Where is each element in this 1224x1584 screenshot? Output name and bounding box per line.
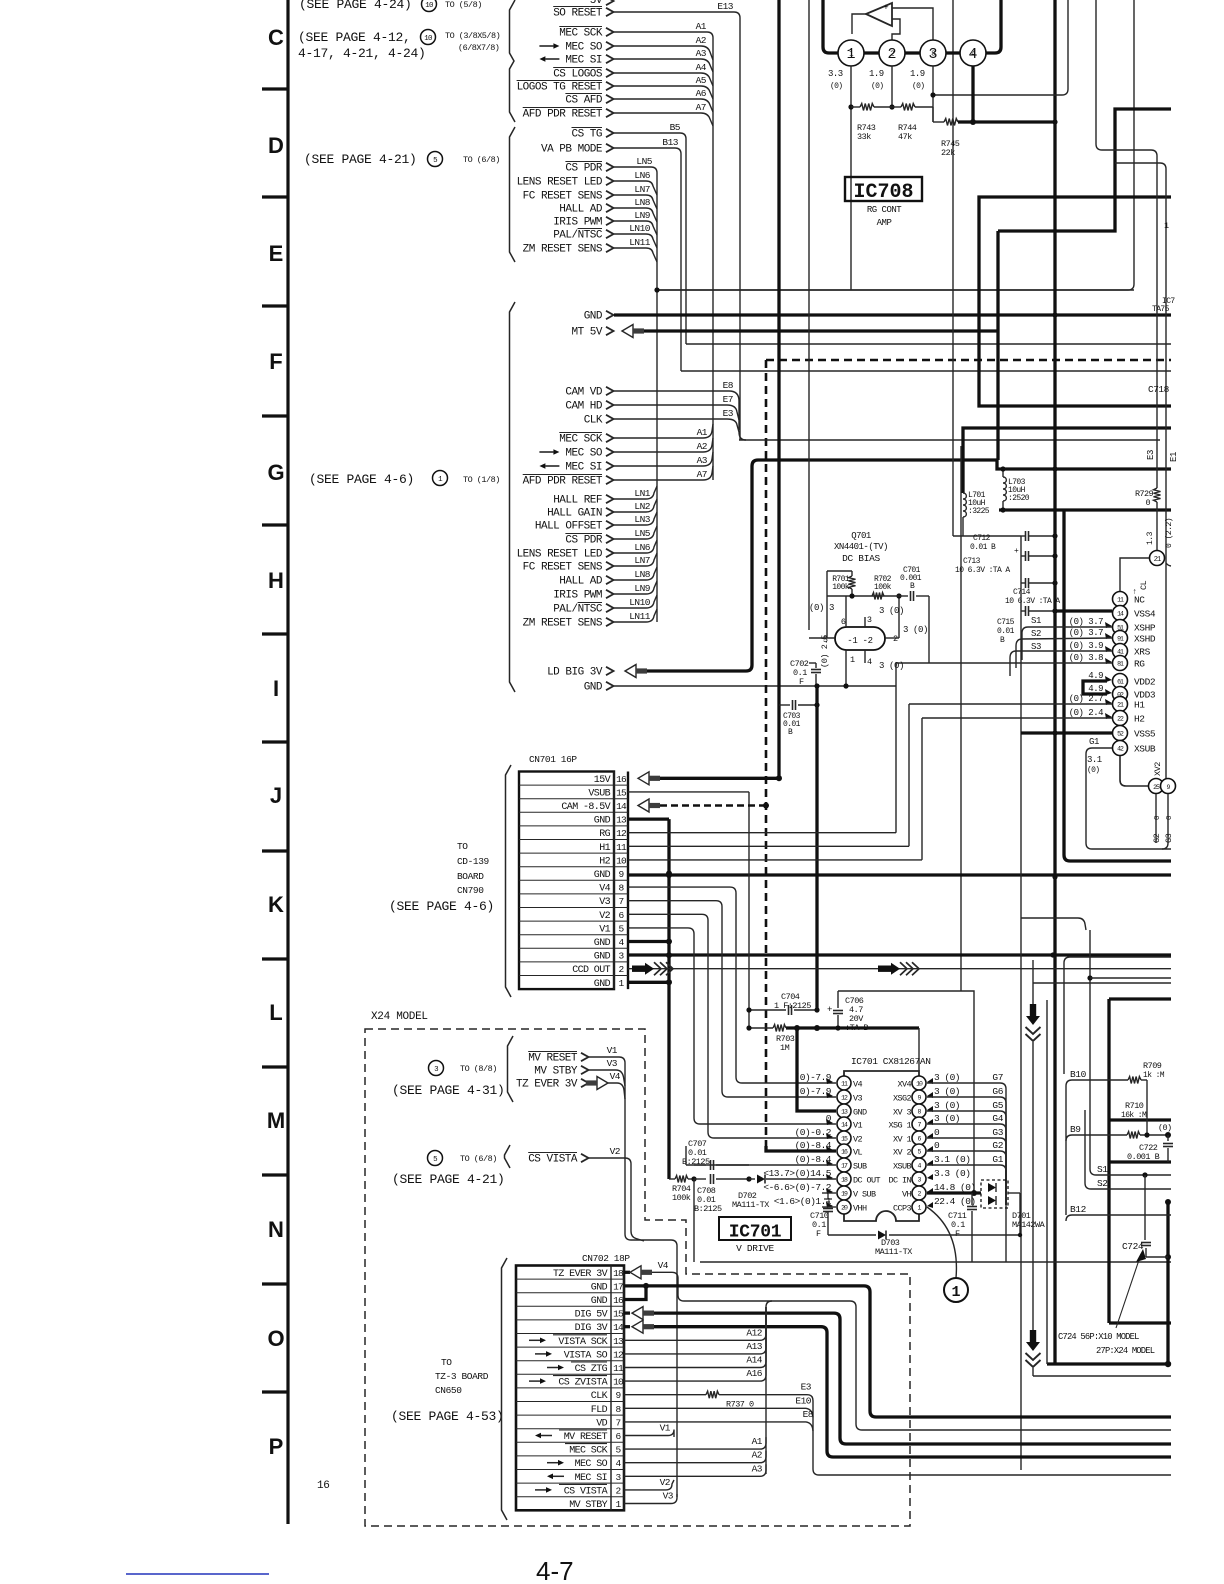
svg-text:18: 18 bbox=[613, 1268, 624, 1279]
svg-text:FC RESET SENS: FC RESET SENS bbox=[523, 191, 603, 203]
wire LN5 bbox=[614, 167, 657, 622]
wire LN10 g bbox=[614, 595, 657, 608]
svg-text:CS VISTA: CS VISTA bbox=[564, 1486, 608, 1497]
wire 919 down bbox=[918, 1028, 920, 1071]
CCD pin XSHP bbox=[1113, 620, 1128, 635]
CCD pin XSUB bbox=[1113, 741, 1128, 756]
wire LN9 bbox=[614, 221, 657, 235]
wire LN7 bbox=[614, 195, 657, 209]
svg-text::3225: :3225 bbox=[968, 507, 990, 516]
wire B13 bbox=[614, 148, 681, 371]
svg-text:RG: RG bbox=[599, 829, 610, 840]
CCD pin XRS bbox=[1113, 644, 1128, 659]
wire thin y164 E1 bbox=[1115, 163, 1166, 779]
svg-text:12: 12 bbox=[613, 1349, 624, 1360]
wire thin y983 bbox=[1033, 982, 1171, 984]
svg-text:E7: E7 bbox=[723, 394, 733, 405]
svg-text:E3: E3 bbox=[723, 408, 734, 419]
svg-text:TO: TO bbox=[441, 1357, 452, 1368]
svg-text:CLK: CLK bbox=[591, 1391, 608, 1402]
wire H2 bbox=[922, 717, 1112, 719]
svg-text:FLD: FLD bbox=[591, 1405, 608, 1416]
svg-text:FC RESET SENS: FC RESET SENS bbox=[523, 562, 603, 574]
svg-text:2: 2 bbox=[887, 46, 896, 63]
wire VHH C710 bbox=[822, 1206, 836, 1208]
svg-text:G3: G3 bbox=[992, 1127, 1003, 1138]
page ref M row X24 bbox=[429, 1061, 444, 1076]
svg-text:V4: V4 bbox=[658, 1260, 669, 1271]
svg-text:VDD2: VDD2 bbox=[1134, 677, 1156, 688]
svg-text:0: 0 bbox=[1145, 498, 1150, 508]
svg-text:(0): (0) bbox=[871, 82, 883, 91]
svg-text:GND: GND bbox=[594, 952, 611, 963]
wire Q701 pin6 up bbox=[845, 614, 847, 627]
wire LN11 g bbox=[614, 609, 657, 622]
svg-text:HALL AD: HALL AD bbox=[559, 576, 603, 588]
svg-text:6: 6 bbox=[841, 617, 846, 627]
svg-text:XV 2: XV 2 bbox=[893, 1148, 912, 1158]
CCD pin VSS4 bbox=[1113, 606, 1128, 621]
svg-text:TZ EVER 3V: TZ EVER 3V bbox=[516, 1079, 578, 1091]
svg-text:GND: GND bbox=[853, 1108, 867, 1118]
wire FLD pin8 E10 bbox=[624, 1408, 813, 1417]
svg-text:(SEE PAGE 4-21): (SEE PAGE 4-21) bbox=[392, 1172, 505, 1187]
wire heavy vertical 998 bbox=[996, 231, 999, 460]
IC701 pin 8 XV 3 bbox=[912, 1104, 926, 1118]
svg-text:G5: G5 bbox=[992, 1100, 1003, 1111]
junction circle 1 bbox=[944, 1278, 968, 1302]
svg-text:A1: A1 bbox=[752, 1436, 763, 1447]
svg-text:V2: V2 bbox=[610, 1146, 621, 1157]
svg-text:CN702 18P: CN702 18P bbox=[582, 1253, 630, 1264]
svg-text:(0): (0) bbox=[912, 82, 924, 91]
wire B5 rail bbox=[686, 343, 1171, 345]
svg-text:CS VISTA: CS VISTA bbox=[528, 1154, 578, 1166]
wire RG bbox=[896, 662, 1112, 664]
svg-text:MEC SI: MEC SI bbox=[565, 462, 602, 474]
svg-text:A3: A3 bbox=[697, 455, 708, 466]
wire pins 1-2 bbox=[864, 51, 879, 54]
wire G2 bbox=[927, 1151, 1006, 1205]
svg-text:V1: V1 bbox=[660, 1423, 671, 1434]
CCD pin NC bbox=[1113, 592, 1128, 607]
svg-text:XV 1: XV 1 bbox=[893, 1135, 912, 1145]
wire A1g bbox=[614, 424, 713, 438]
brace CN701 bbox=[506, 765, 512, 997]
svg-text:XSHD: XSHD bbox=[1134, 634, 1156, 645]
model box heavy outline bbox=[1107, 999, 1110, 1323]
svg-text:A1: A1 bbox=[696, 21, 707, 32]
svg-text:HALL OFFSET: HALL OFFSET bbox=[535, 521, 603, 533]
resistor R703 bbox=[749, 1027, 773, 1029]
svg-text:3 (0): 3 (0) bbox=[903, 625, 928, 635]
brace CN702 bbox=[502, 1258, 508, 1520]
svg-text:H2: H2 bbox=[599, 856, 610, 867]
svg-text:10: 10 bbox=[616, 855, 627, 866]
svg-text:TO (5/8): TO (5/8) bbox=[445, 0, 482, 10]
brace CS VISTA group bbox=[505, 1145, 511, 1168]
svg-text:PAL/NTSC: PAL/NTSC bbox=[553, 604, 603, 616]
wire pin3 down bbox=[932, 66, 934, 122]
wire S2 b bbox=[1085, 1110, 1171, 1189]
svg-text:<1.6>(0)1.1: <1.6>(0)1.1 bbox=[774, 1196, 832, 1207]
svg-text:(0)-7.9: (0)-7.9 bbox=[795, 1072, 832, 1083]
svg-text:(0) 2.5: (0) 2.5 bbox=[820, 635, 830, 668]
svg-text:47k: 47k bbox=[898, 132, 912, 142]
svg-text:LN5: LN5 bbox=[636, 156, 652, 167]
wire heavy feed from top to pin1 bbox=[823, 0, 838, 53]
svg-text:TZ-3 BOARD: TZ-3 BOARD bbox=[435, 1371, 489, 1382]
svg-text:C718: C718 bbox=[1148, 384, 1170, 395]
svg-text:3 (0): 3 (0) bbox=[934, 1072, 960, 1083]
svg-text:MEC SI: MEC SI bbox=[575, 1473, 607, 1484]
svg-text:E3: E3 bbox=[801, 1382, 812, 1393]
svg-text:(0)-8.4: (0)-8.4 bbox=[795, 1154, 832, 1165]
IC701 pin 1 CCP3 bbox=[912, 1200, 926, 1214]
svg-text:1: 1 bbox=[1164, 221, 1169, 231]
svg-text:F: F bbox=[816, 1229, 821, 1239]
svg-text:(SEE PAGE 4-53): (SEE PAGE 4-53) bbox=[391, 1409, 504, 1424]
svg-text:MA111-TX: MA111-TX bbox=[875, 1247, 912, 1257]
svg-text:C712: C712 bbox=[973, 534, 991, 543]
wire heavy right rail y460-469 jog bbox=[997, 460, 1171, 469]
wire V SUB gnd bbox=[822, 1192, 836, 1194]
svg-text:CS ZVISTA: CS ZVISTA bbox=[558, 1378, 607, 1389]
IC701 pin 5 XV 2 bbox=[912, 1144, 926, 1158]
wire B9 R710 bbox=[1066, 1135, 1127, 1141]
svg-text:A3: A3 bbox=[752, 1463, 763, 1474]
wire heavy y428 bbox=[963, 428, 1171, 493]
wire vertical 953 bbox=[952, 0, 954, 536]
capacitor C713 bbox=[1025, 551, 1027, 561]
svg-text:CL: CL bbox=[1139, 580, 1149, 590]
wire G3 bbox=[927, 1138, 1006, 1205]
zone border rail bbox=[286, 0, 289, 1524]
svg-text:21: 21 bbox=[1154, 556, 1161, 564]
svg-text:CLK: CLK bbox=[584, 415, 603, 427]
IC701 pin 16 VL bbox=[837, 1144, 851, 1158]
wire LN6 g bbox=[614, 540, 657, 553]
svg-text:(0) 3: (0) 3 bbox=[809, 603, 834, 613]
svg-text:G1: G1 bbox=[1089, 737, 1099, 747]
svg-text:1: 1 bbox=[846, 46, 855, 63]
svg-text:(0) 2.4: (0) 2.4 bbox=[1069, 708, 1103, 718]
svg-text:MEC SCK: MEC SCK bbox=[569, 1446, 607, 1457]
wire node R701 bottom bbox=[827, 595, 899, 597]
wire E8 bbox=[614, 391, 739, 430]
wire LN rail to top bbox=[657, 289, 1134, 291]
svg-text:10: 10 bbox=[424, 35, 433, 43]
wire G5 bbox=[927, 1111, 1006, 1205]
svg-text:IRIS PWM: IRIS PWM bbox=[553, 217, 602, 229]
svg-text:CN790: CN790 bbox=[457, 885, 484, 896]
svg-text:(0) 3.9: (0) 3.9 bbox=[1069, 641, 1103, 651]
svg-text:100k: 100k bbox=[832, 583, 850, 592]
svg-text:(6/8X7/8): (6/8X7/8) bbox=[458, 43, 499, 53]
wire GND pin17 heavy bbox=[624, 1284, 646, 1287]
wire DC OUT pin18 network bbox=[669, 1178, 675, 1180]
wire A1 bbox=[614, 32, 713, 480]
svg-text:+: + bbox=[883, 3, 888, 13]
resistor R701 bbox=[851, 571, 853, 576]
svg-text:VISTA SO: VISTA SO bbox=[564, 1350, 608, 1361]
svg-text:IC701 CX81267AN: IC701 CX81267AN bbox=[851, 1056, 931, 1067]
svg-text:CS LOGOS: CS LOGOS bbox=[553, 69, 603, 81]
svg-text:IRIS PWM: IRIS PWM bbox=[553, 590, 602, 602]
resistor R704 bbox=[675, 1176, 688, 1183]
svg-text:+: + bbox=[1014, 547, 1019, 556]
wire thin h918 bbox=[1021, 918, 1086, 930]
svg-text:3: 3 bbox=[867, 615, 872, 625]
wire G3 bbox=[1162, 794, 1168, 849]
svg-text:<-6.6>(0)-7.2: <-6.6>(0)-7.2 bbox=[763, 1182, 831, 1193]
wire G2 bbox=[1155, 794, 1157, 843]
svg-text:LN6: LN6 bbox=[634, 542, 650, 553]
svg-text:A4: A4 bbox=[696, 62, 707, 73]
svg-text:(SEE PAGE 4-6): (SEE PAGE 4-6) bbox=[309, 472, 414, 487]
svg-text:LN8: LN8 bbox=[634, 569, 650, 580]
svg-text:S3: S3 bbox=[1031, 642, 1041, 652]
svg-text:GND: GND bbox=[584, 311, 603, 323]
svg-text:0.001 B: 0.001 B bbox=[1127, 1152, 1160, 1162]
svg-text:BOARD: BOARD bbox=[457, 871, 484, 882]
svg-text:F: F bbox=[269, 349, 282, 374]
wire pin1 down bbox=[850, 66, 852, 290]
wire vertical 1090 bbox=[1089, 930, 1091, 1120]
svg-text:GND: GND bbox=[594, 979, 611, 990]
wire CAM -8.5V dashed rail bbox=[766, 359, 1171, 362]
svg-text:MV STBY: MV STBY bbox=[534, 1066, 578, 1078]
svg-text:1M: 1M bbox=[780, 1043, 790, 1053]
svg-text:AFD PDR RESET: AFD PDR RESET bbox=[523, 109, 603, 121]
wire GND pin13 bbox=[628, 817, 669, 820]
svg-text:XV2: XV2 bbox=[1153, 762, 1163, 776]
svg-text:XRS: XRS bbox=[1134, 647, 1151, 658]
wire RG pin12 bbox=[628, 832, 896, 834]
svg-text:LN9: LN9 bbox=[634, 210, 650, 221]
capacitor C724 bbox=[1144, 1175, 1146, 1240]
wire G6 bbox=[927, 1097, 1006, 1205]
svg-text:16: 16 bbox=[616, 774, 627, 785]
svg-text:S1: S1 bbox=[1031, 616, 1041, 626]
svg-text:C724: C724 bbox=[1122, 1241, 1144, 1252]
svg-text:C714: C714 bbox=[1013, 588, 1031, 597]
svg-text:A2: A2 bbox=[697, 441, 708, 452]
svg-text:GND: GND bbox=[594, 870, 611, 881]
svg-text:M: M bbox=[267, 1108, 285, 1133]
wire thin y150 E3 feed bbox=[1096, 0, 1157, 449]
wire VSUB pin15 bbox=[628, 791, 749, 793]
svg-text:VHH: VHH bbox=[853, 1204, 867, 1214]
svg-text:XSUB: XSUB bbox=[1134, 744, 1156, 755]
wire vertical 1047 bbox=[1046, 1000, 1048, 1364]
svg-text:V3: V3 bbox=[607, 1058, 618, 1069]
wire A3g bbox=[614, 452, 713, 466]
wire V3 tag bbox=[589, 1070, 625, 1086]
wire A7 bbox=[614, 113, 713, 126]
svg-text:CCP3: CCP3 bbox=[893, 1204, 912, 1214]
svg-text:LN2: LN2 bbox=[634, 501, 650, 512]
wire opamp - feedback bbox=[892, 19, 900, 41]
svg-text:LN9: LN9 bbox=[634, 583, 650, 594]
svg-text:16: 16 bbox=[317, 1480, 330, 1492]
svg-text:22.4 (0): 22.4 (0) bbox=[934, 1196, 976, 1207]
blue margin line bbox=[126, 1573, 269, 1575]
wire pin2 down bbox=[891, 66, 893, 107]
svg-text:I: I bbox=[273, 676, 279, 701]
svg-text:V3: V3 bbox=[663, 1491, 674, 1502]
wire GND I bbox=[614, 685, 896, 687]
svg-text:11: 11 bbox=[616, 842, 627, 853]
wire heavy 817 vertical bbox=[815, 686, 818, 1010]
svg-text:GND: GND bbox=[591, 1282, 608, 1293]
svg-text:H: H bbox=[268, 568, 284, 593]
svg-text:IC708: IC708 bbox=[853, 181, 913, 204]
wire V2 tag bbox=[589, 1158, 644, 1241]
wire S2 to XSHD bbox=[1016, 638, 1112, 646]
svg-text:LN1: LN1 bbox=[634, 488, 650, 499]
X24 MODEL dashed box bbox=[365, 1029, 910, 1526]
wire B13 rail bbox=[681, 370, 1171, 372]
svg-text:VSS4: VSS4 bbox=[1134, 609, 1156, 620]
CCD pin RG bbox=[1113, 656, 1128, 671]
wire bottom rail 1262 bbox=[700, 1261, 1171, 1263]
IC708 pin 2 bbox=[879, 40, 905, 66]
svg-text:(0) 3.7: (0) 3.7 bbox=[1069, 628, 1103, 638]
svg-text:LN10: LN10 bbox=[629, 597, 651, 608]
IC708 label box bbox=[845, 177, 922, 201]
CCD pin VSS5 bbox=[1113, 726, 1128, 741]
svg-text:R729: R729 bbox=[1135, 489, 1154, 499]
svg-text:(SEE PAGE 4-6): (SEE PAGE 4-6) bbox=[389, 899, 494, 914]
svg-text:C715: C715 bbox=[997, 618, 1015, 627]
svg-text:N: N bbox=[268, 1217, 284, 1242]
wire heavy y197 bbox=[979, 197, 1171, 406]
svg-text:11: 11 bbox=[613, 1363, 624, 1374]
wire MV RESET pin6 V1 bbox=[624, 1430, 674, 1438]
wire CCP3 curve to circle 1 bbox=[927, 1207, 956, 1278]
wire GND I to Q701 bbox=[843, 683, 848, 688]
IC701 pin 10 XV4 bbox=[912, 1076, 926, 1090]
svg-text::2520: :2520 bbox=[1008, 494, 1030, 503]
wire VH heavy bbox=[927, 1191, 981, 1194]
svg-text:A3: A3 bbox=[696, 48, 707, 59]
svg-text:3 (0): 3 (0) bbox=[934, 1113, 960, 1124]
svg-text:3.3: 3.3 bbox=[828, 69, 843, 79]
svg-text:V1: V1 bbox=[607, 1045, 618, 1056]
svg-text:F: F bbox=[955, 1229, 960, 1239]
svg-text:E8: E8 bbox=[723, 380, 734, 391]
capacitor C703 bbox=[779, 704, 790, 706]
inductor L701 bbox=[963, 493, 966, 517]
wire LN8 bbox=[614, 208, 657, 222]
svg-text:MEC SCK: MEC SCK bbox=[559, 28, 603, 40]
wire TZ EVER 3V pin18 bbox=[624, 1271, 630, 1274]
svg-text:CS PDR: CS PDR bbox=[565, 535, 603, 547]
svg-text:(SEE PAGE 4-21): (SEE PAGE 4-21) bbox=[304, 152, 417, 167]
wire A16 bbox=[624, 1307, 766, 1381]
wire A14 bbox=[624, 1307, 766, 1368]
svg-text:A7: A7 bbox=[697, 469, 707, 480]
svg-text:S1: S1 bbox=[1097, 1164, 1108, 1175]
wire A5 bbox=[614, 86, 713, 99]
svg-text:TA75: TA75 bbox=[1152, 305, 1170, 314]
wire vertical 961 bbox=[960, 446, 962, 991]
wire heavy y877 GND rail bbox=[628, 873, 1171, 876]
svg-text:14: 14 bbox=[613, 1322, 624, 1333]
svg-text:3 (0): 3 (0) bbox=[934, 1100, 960, 1111]
svg-text:VL: VL bbox=[853, 1148, 863, 1158]
wire 15V pin16 bbox=[638, 772, 649, 785]
svg-text:V4: V4 bbox=[610, 1071, 621, 1082]
svg-text:LN7: LN7 bbox=[634, 184, 650, 195]
wire vertical 1033 with off-page arrows bbox=[1032, 960, 1034, 1004]
svg-text:V DRIVE: V DRIVE bbox=[736, 1243, 774, 1254]
svg-text:V SUB: V SUB bbox=[853, 1190, 876, 1200]
resistor R729 bbox=[1156, 449, 1158, 488]
wire A13 bbox=[624, 1307, 766, 1354]
svg-text:TO (6/8): TO (6/8) bbox=[460, 1154, 497, 1164]
IC701 pin 20 VHH bbox=[837, 1200, 851, 1214]
svg-text:E3: E3 bbox=[1146, 450, 1156, 460]
wire VSS4 heavy bbox=[1055, 609, 1112, 612]
wire CLK pin9 R737 bbox=[624, 1394, 706, 1396]
wire GND pin4 bbox=[628, 940, 669, 943]
svg-text:XN4401-(TV): XN4401-(TV) bbox=[834, 542, 888, 552]
wire top box line bbox=[838, 991, 974, 1194]
svg-text:GND: GND bbox=[594, 816, 611, 827]
svg-text:XV 3: XV 3 bbox=[893, 1108, 912, 1118]
svg-text:13: 13 bbox=[616, 815, 627, 826]
CCD pin VDD2 bbox=[1113, 674, 1128, 689]
svg-text:G3: G3 bbox=[1164, 833, 1174, 843]
svg-text:(0): (0) bbox=[830, 82, 842, 91]
svg-text:B12: B12 bbox=[1070, 1204, 1087, 1215]
wire VSS5 heavy bbox=[1021, 731, 1112, 734]
svg-text:22k: 22k bbox=[941, 148, 955, 158]
svg-text:S2: S2 bbox=[1031, 629, 1041, 639]
svg-text:<13.7>(0)14.5: <13.7>(0)14.5 bbox=[763, 1168, 831, 1179]
svg-text:33k: 33k bbox=[857, 132, 871, 142]
svg-text:LOGOS TG RESET: LOGOS TG RESET bbox=[517, 82, 603, 94]
wire pin4 up heavy bbox=[986, 0, 1001, 53]
svg-text:G4: G4 bbox=[992, 1113, 1003, 1124]
svg-text:VA PB MODE: VA PB MODE bbox=[541, 144, 603, 156]
wire Q701 base left bbox=[809, 637, 835, 639]
svg-text:HALL GAIN: HALL GAIN bbox=[547, 508, 602, 520]
wire G1 XSUB bbox=[1086, 748, 1171, 849]
arrow to C724 bbox=[1116, 1254, 1141, 1328]
svg-text:(0): (0) bbox=[1087, 766, 1099, 775]
svg-text:V3: V3 bbox=[599, 897, 610, 908]
svg-text:CAM HD: CAM HD bbox=[565, 401, 603, 413]
svg-text:4: 4 bbox=[968, 46, 977, 63]
wire VL elbow to IC701 pin16 bbox=[766, 1146, 836, 1151]
wire left node vertical bbox=[826, 571, 828, 596]
wire DIG 3V pin14 bbox=[624, 1325, 630, 1328]
svg-text:(0)-0.2: (0)-0.2 bbox=[795, 1127, 832, 1138]
wire Q701 pin2 right bbox=[885, 637, 899, 639]
svg-text:XSUB: XSUB bbox=[893, 1162, 912, 1172]
CCD pin XSHD bbox=[1113, 631, 1128, 646]
svg-text:LN11: LN11 bbox=[629, 237, 651, 248]
svg-text:VH: VH bbox=[902, 1190, 912, 1200]
svg-text:2: 2 bbox=[893, 634, 898, 644]
svg-text:L: L bbox=[269, 1000, 282, 1025]
svg-text:R709: R709 bbox=[1143, 1061, 1162, 1071]
wire CAM -8.5V dashed vertical bbox=[765, 360, 768, 1146]
svg-text:B10: B10 bbox=[1070, 1069, 1087, 1080]
